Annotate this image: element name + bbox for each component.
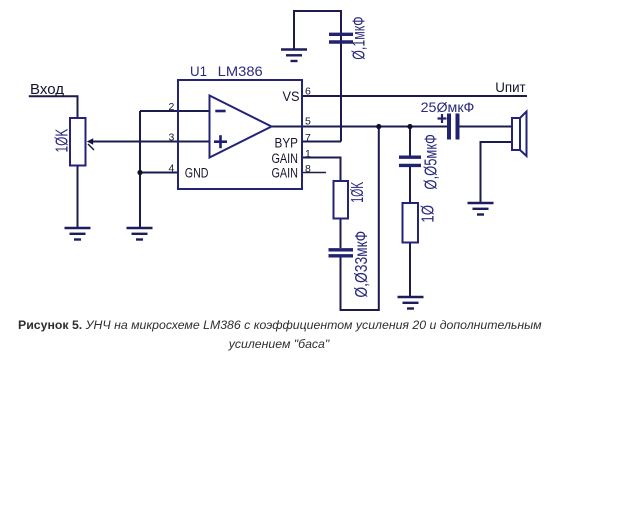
svg-text:1ØK: 1ØK — [52, 129, 72, 153]
svg-text:3: 3 — [169, 132, 175, 144]
svg-text:Вход: Вход — [30, 82, 65, 98]
svg-text:4: 4 — [169, 163, 175, 175]
svg-text:VS: VS — [283, 89, 300, 104]
svg-text:Ø,1мкФ: Ø,1мкФ — [349, 16, 369, 59]
svg-text:Uпит: Uпит — [495, 80, 526, 95]
svg-text:GAIN: GAIN — [272, 166, 299, 181]
svg-text:BYP: BYP — [275, 136, 299, 151]
svg-text:25ØмкФ: 25ØмкФ — [421, 100, 475, 115]
svg-text:1ØK: 1ØK — [347, 182, 367, 203]
svg-text:U1: U1 — [190, 64, 207, 79]
svg-text:1: 1 — [305, 148, 311, 160]
svg-text:Ø,Ø33мкФ: Ø,Ø33мкФ — [351, 231, 371, 298]
svg-text:2: 2 — [169, 101, 175, 113]
svg-text:6: 6 — [305, 86, 311, 98]
svg-text:GAIN: GAIN — [272, 151, 299, 166]
svg-text:LM386: LM386 — [218, 64, 263, 79]
svg-text:Ø,Ø5мкФ: Ø,Ø5мкФ — [421, 134, 441, 190]
svg-text:5: 5 — [305, 116, 311, 128]
svg-text:8: 8 — [305, 163, 311, 175]
svg-text:7: 7 — [305, 132, 311, 144]
svg-text:GND: GND — [185, 166, 209, 181]
svg-text:1Ø: 1Ø — [418, 205, 438, 223]
